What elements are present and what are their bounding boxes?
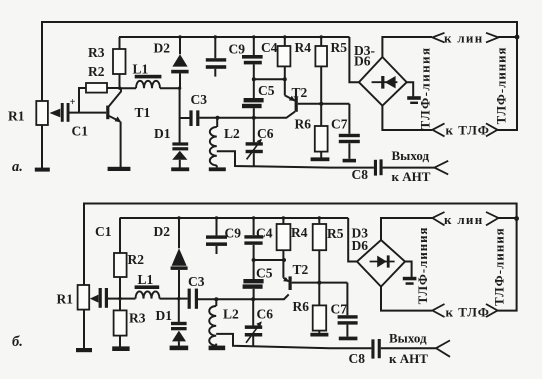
svg-text:C9: C9 [225, 226, 242, 241]
svg-text:R5: R5 [327, 226, 344, 241]
svg-text:Выход: Выход [389, 331, 427, 346]
svg-text:D6: D6 [354, 54, 371, 69]
svg-text:C3: C3 [191, 92, 208, 107]
svg-text:R6: R6 [293, 299, 310, 314]
svg-text:к ТЛФ: к ТЛФ [446, 305, 490, 320]
svg-text:к АНТ: к АНТ [389, 351, 428, 366]
svg-text:к лин: к лин [444, 31, 484, 46]
svg-text:R3: R3 [88, 45, 105, 60]
svg-text:R3: R3 [129, 311, 146, 326]
svg-text:R4: R4 [295, 40, 312, 55]
svg-text:D1: D1 [154, 126, 171, 141]
svg-text:ТЛФ-линия: ТЛФ-линия [493, 227, 507, 306]
svg-text:L2: L2 [224, 126, 240, 141]
svg-text:L1: L1 [138, 272, 154, 287]
svg-text:T2: T2 [292, 85, 308, 100]
svg-text:T1: T1 [135, 105, 151, 120]
svg-text:a.: a. [12, 159, 23, 175]
svg-text:б.: б. [12, 334, 23, 350]
svg-text:к ТЛФ: к ТЛФ [446, 123, 490, 138]
svg-text:C6: C6 [257, 307, 274, 322]
svg-text:C4: C4 [261, 40, 278, 55]
svg-text:C7: C7 [331, 302, 348, 317]
svg-text:D1: D1 [156, 308, 173, 323]
svg-text:к АНТ: к АНТ [392, 169, 431, 184]
svg-text:C5: C5 [256, 266, 273, 281]
svg-text:R2: R2 [88, 64, 105, 79]
svg-text:C5: C5 [258, 83, 275, 98]
svg-text:+: + [70, 97, 76, 108]
svg-text:L2: L2 [223, 307, 239, 322]
svg-text:R2: R2 [128, 252, 145, 267]
svg-text:R1: R1 [8, 109, 25, 124]
svg-text:ТЛФ-линия: ТЛФ-линия [416, 227, 430, 305]
svg-text:L1: L1 [133, 62, 149, 77]
svg-text:C3: C3 [188, 274, 205, 289]
svg-text:C6: C6 [257, 126, 274, 141]
svg-text:R6: R6 [295, 117, 312, 132]
svg-text:R5: R5 [331, 40, 348, 55]
svg-text:ТЛФ-линия: ТЛФ-линия [418, 47, 433, 130]
svg-text:T2: T2 [293, 262, 309, 277]
svg-text:D2: D2 [154, 41, 171, 56]
svg-text:R4: R4 [291, 225, 308, 240]
svg-text:C1: C1 [72, 124, 89, 139]
svg-text:D2: D2 [154, 224, 171, 239]
svg-text:к лин: к лин [444, 212, 484, 227]
svg-text:R1: R1 [57, 292, 74, 307]
svg-text:C8: C8 [352, 167, 369, 182]
svg-text:D6: D6 [352, 238, 369, 253]
svg-text:C7: C7 [331, 117, 348, 132]
svg-text:C9: C9 [229, 42, 246, 57]
svg-text:ТЛФ-линия: ТЛФ-линия [495, 47, 509, 125]
svg-text:C8: C8 [349, 351, 366, 366]
svg-text:C1: C1 [95, 224, 112, 239]
svg-text:C4: C4 [256, 226, 273, 241]
svg-text:Выход: Выход [392, 148, 430, 163]
